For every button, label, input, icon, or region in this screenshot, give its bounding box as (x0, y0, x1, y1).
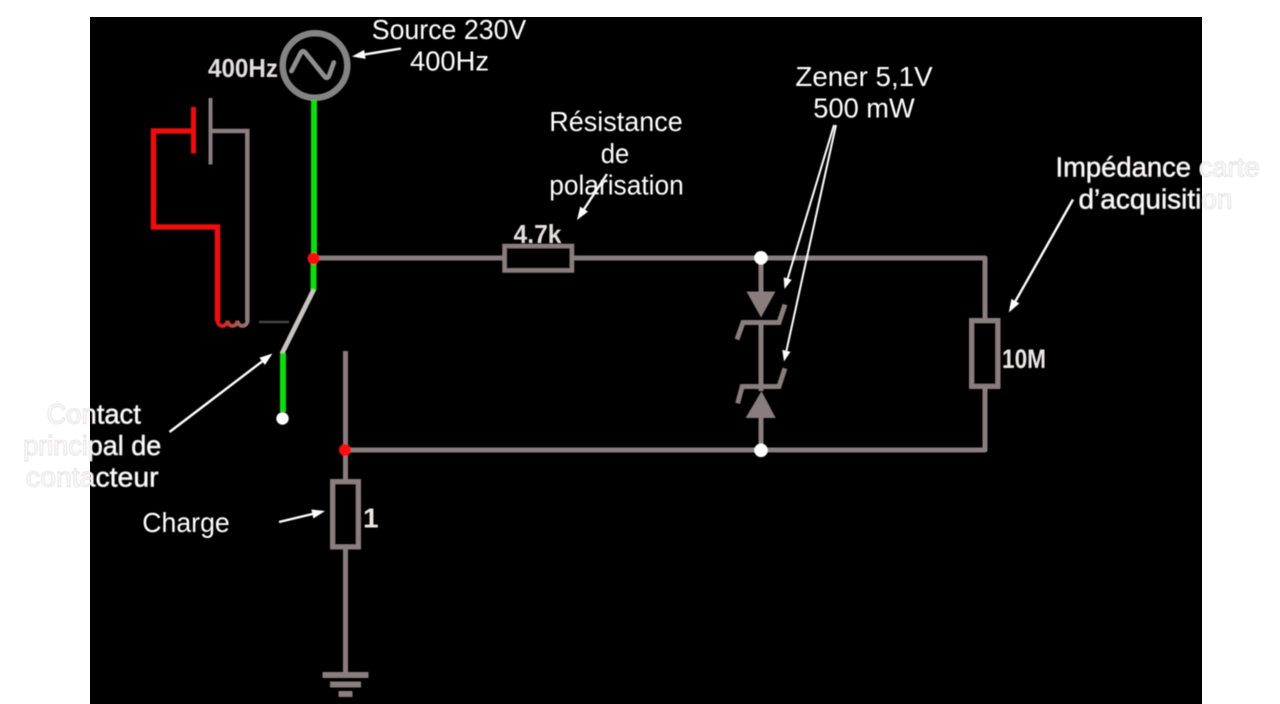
zener D2 triangle (746, 391, 776, 418)
wire gray battery to coil (213, 131, 248, 321)
arrow to switch (170, 354, 273, 433)
arrow to 4.7k (577, 174, 607, 220)
coil L1 (218, 321, 248, 326)
svg-text:Source 230V: Source 230V (372, 14, 527, 45)
svg-text:d’acquisition: d’acquisition (1079, 184, 1233, 215)
node dot bottom (white) (754, 444, 768, 458)
zener D1 bar (737, 305, 785, 340)
svg-text:Zener 5,1V: Zener 5,1V (795, 61, 933, 92)
arrow to 10M (1009, 200, 1073, 313)
svg-text:10M: 10M (1002, 344, 1046, 374)
switch green lower stub (280, 353, 286, 412)
svg-text:Charge: Charge (142, 507, 230, 538)
svg-text:polarisation: polarisation (549, 170, 684, 201)
arrow to zener D2 (782, 125, 836, 362)
switch open terminal white dot (276, 412, 288, 424)
wire bottom horizontal (10M bottom to corner, left to charge node) (345, 385, 985, 450)
svg-text:Résistance: Résistance (549, 106, 683, 137)
resistor R1 4.7k body (505, 246, 573, 271)
resistor R3 charge body (333, 482, 359, 548)
svg-text:1: 1 (363, 502, 379, 533)
AC source sine glyph (292, 51, 334, 78)
svg-text:de: de (601, 138, 630, 169)
switch green upper stub (311, 258, 317, 291)
wire zener branch upper (759, 258, 764, 293)
svg-text:contacteur: contacteur (26, 462, 159, 493)
wire green source stem (311, 100, 317, 256)
wire zener branch lower (759, 416, 764, 450)
svg-text:4.7k: 4.7k (514, 219, 563, 249)
wire charge branch lower (343, 546, 348, 673)
zener D2 bar (738, 368, 785, 403)
annotation Resistance de polarisation (549, 106, 684, 201)
mechanical link line (259, 321, 289, 324)
zener D1 triangle (747, 292, 776, 318)
resistor R2 10M body (972, 321, 999, 387)
annotation Contact principal de contacteur (23, 399, 161, 493)
arrow to source (352, 49, 401, 59)
svg-text:400Hz: 400Hz (208, 53, 278, 83)
node dot charge (red) (339, 444, 351, 456)
annotation Zener 5,1V 500mW (795, 61, 933, 124)
svg-text:Impédance carte: Impédance carte (1056, 152, 1260, 183)
switch blade (282, 290, 314, 354)
svg-text:principal de: principal de (23, 430, 161, 461)
arrow to charge resistor (279, 510, 325, 523)
battery gray plate (209, 98, 213, 165)
AC source V1 circle (283, 33, 348, 98)
node dot source (red) (308, 253, 320, 265)
annotation Impedance carte d'acquisition (1056, 152, 1260, 215)
wire zener branch middle (759, 320, 764, 391)
wire red coil loop (154, 131, 218, 321)
node dot top (white) (754, 251, 768, 265)
ground symbol (323, 675, 369, 694)
svg-text:500 mW: 500 mW (813, 92, 915, 123)
svg-text:Contact: Contact (47, 399, 142, 430)
wire charge branch upper (343, 351, 348, 482)
battery red plate (191, 107, 196, 154)
svg-text:400Hz: 400Hz (410, 46, 489, 77)
arrow to zener D1 (784, 125, 834, 289)
annotation Source 230V 400Hz (372, 14, 527, 77)
wire top horizontal (node to right corner, down to 10M) (314, 258, 985, 322)
